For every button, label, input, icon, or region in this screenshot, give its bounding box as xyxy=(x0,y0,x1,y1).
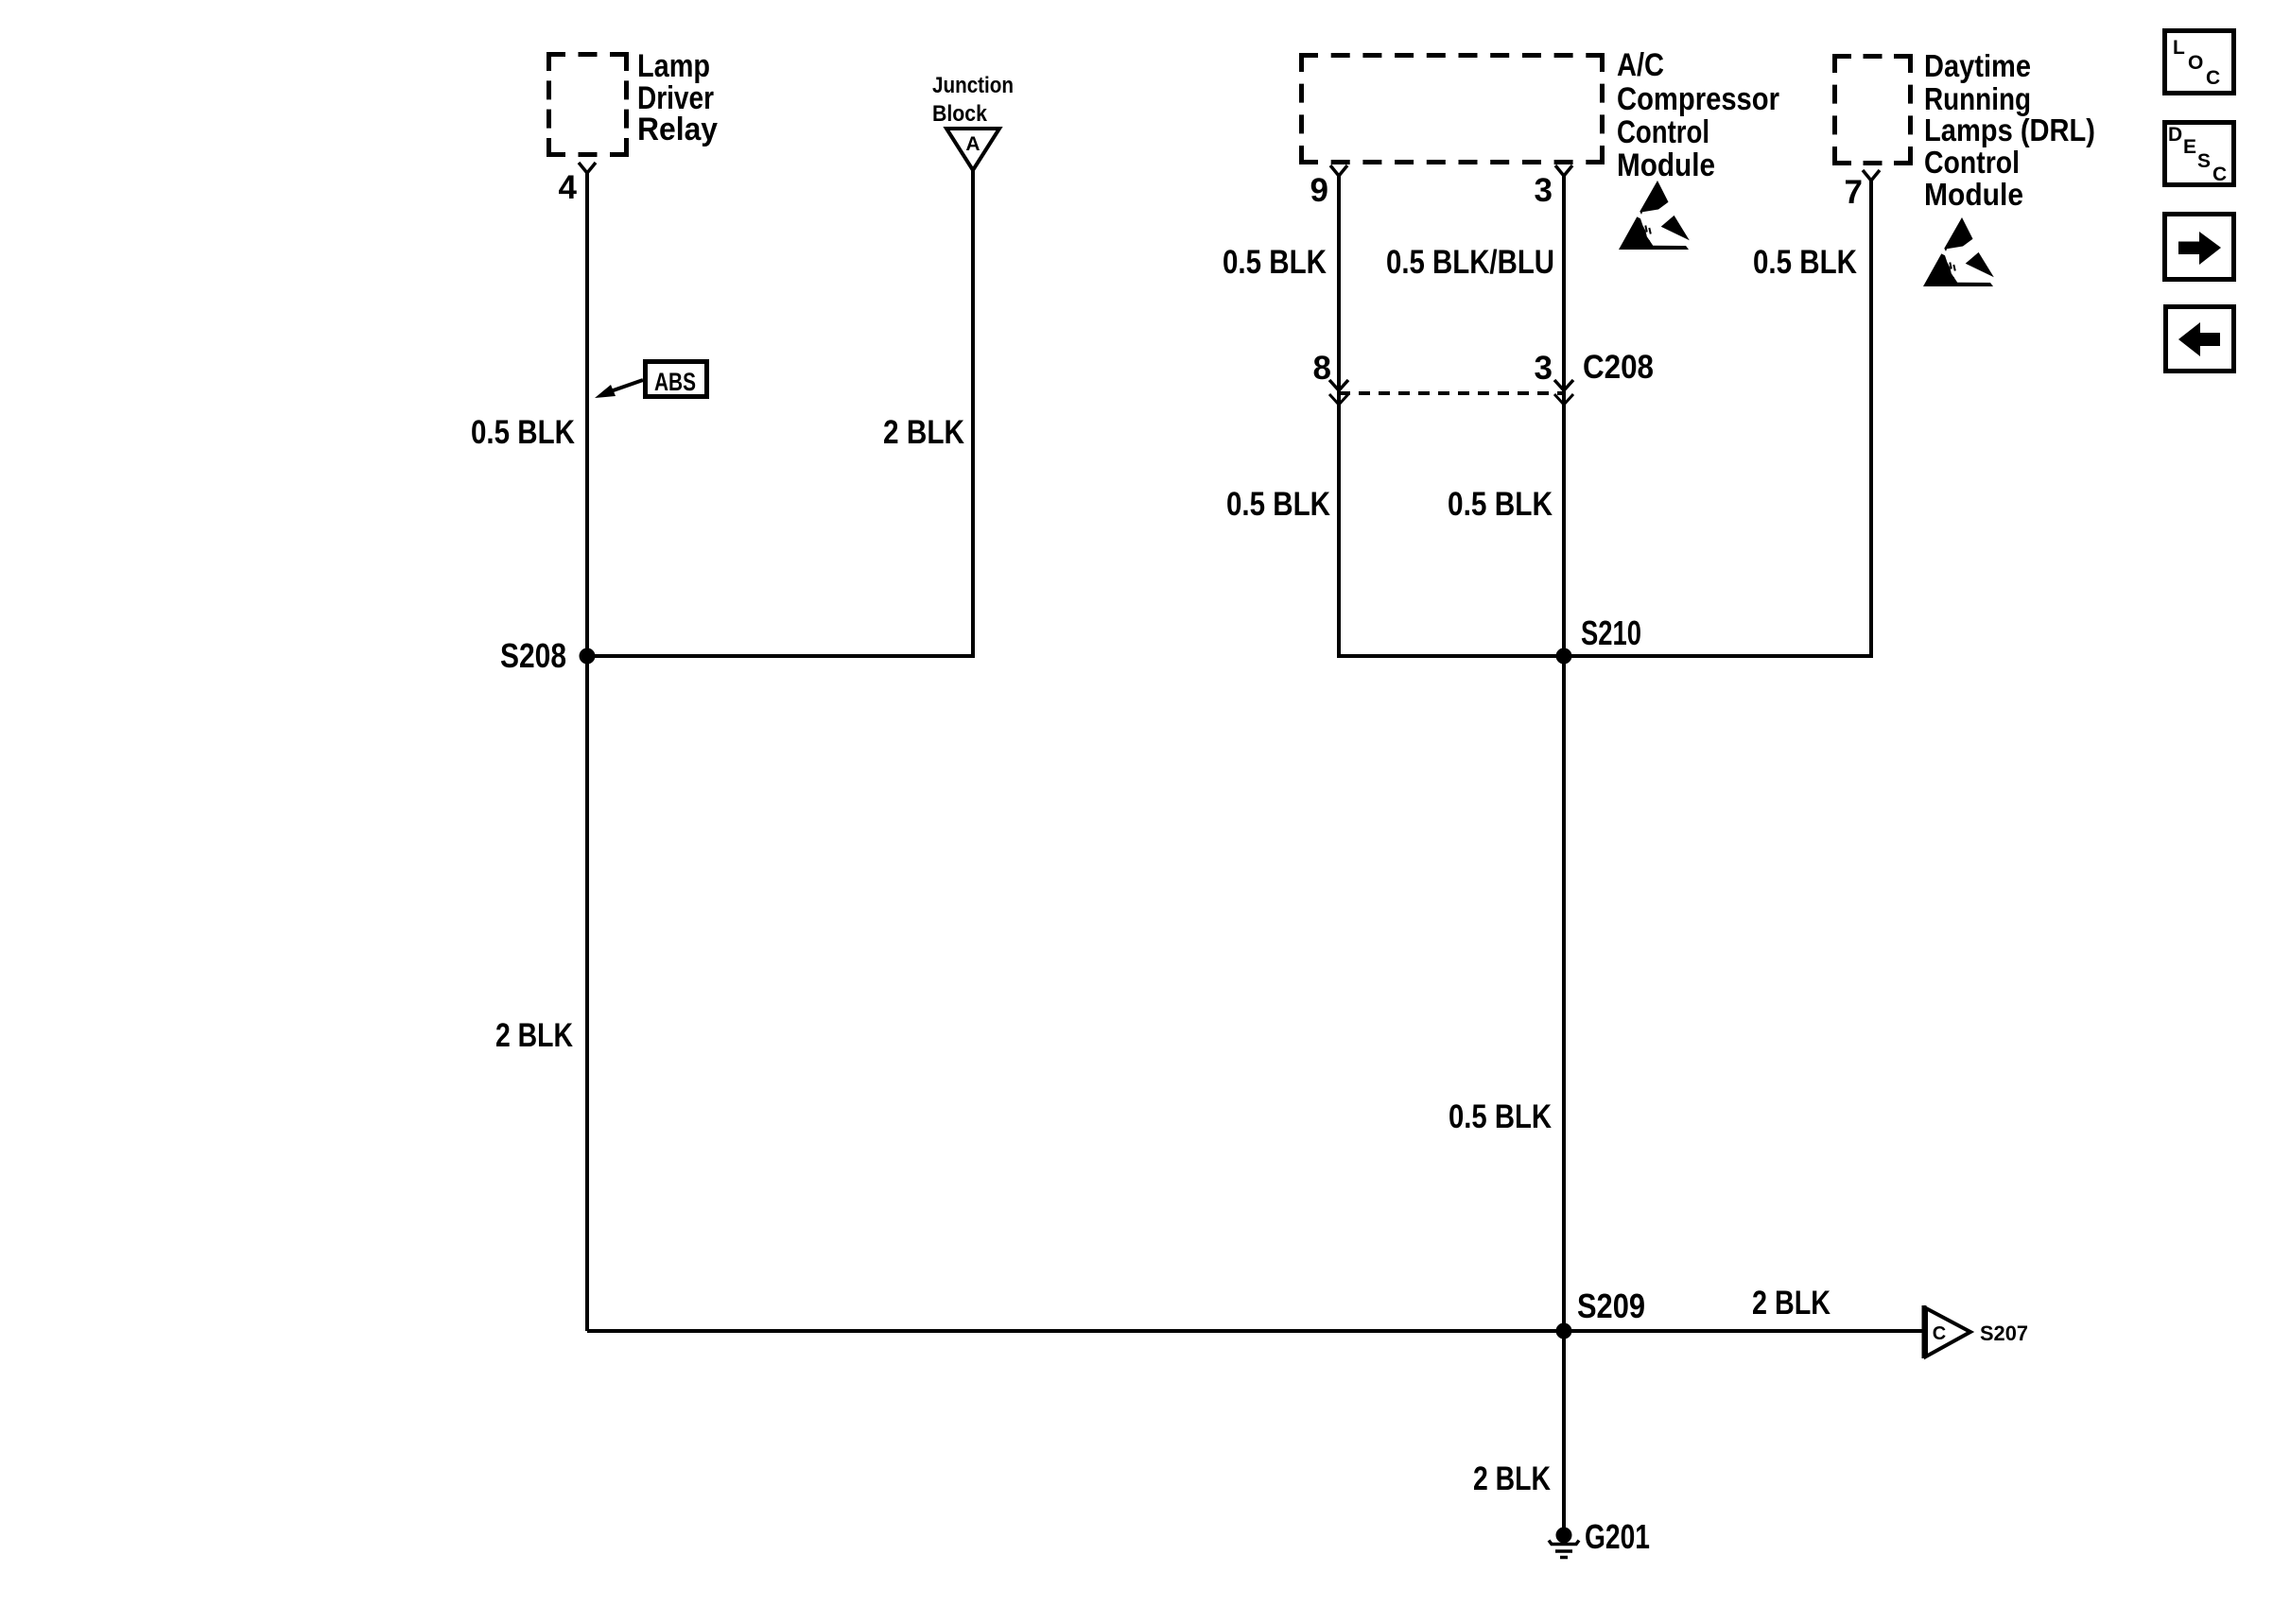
svg-text:Daytime: Daytime xyxy=(1924,48,2031,83)
svg-text:A/C: A/C xyxy=(1617,47,1664,83)
wire: junction block down to S208 horizontal xyxy=(971,170,975,656)
label: Daytime Running Lamps (DRL) Control Module xyxy=(1924,48,2095,212)
ESD symbol (DRL module) xyxy=(1923,217,1994,286)
pin 4 connector (female terminal Y) xyxy=(579,163,596,173)
svg-text:Junction: Junction xyxy=(932,73,1014,98)
wire: relay pin 4 down through S208 to S209 line (left vertical) xyxy=(585,173,589,1331)
svg-text:S208: S208 xyxy=(500,636,566,675)
svg-text:S210: S210 xyxy=(1581,613,1641,652)
wire: S210 horizontal segment xyxy=(1337,654,1873,658)
svg-text:S: S xyxy=(2197,150,2211,172)
callout ABS box xyxy=(595,362,707,399)
wire: DRL pin 7 down to S210 (right vertical) xyxy=(1869,181,1873,658)
svg-text:A: A xyxy=(965,133,980,155)
wire: S208 horizontal segment xyxy=(587,654,975,658)
svg-text:3: 3 xyxy=(1535,350,1553,387)
svg-text:0.5 BLK: 0.5 BLK xyxy=(1223,244,1327,281)
svg-text:Module: Module xyxy=(1617,147,1715,183)
ground G201 symbol xyxy=(1549,1528,1579,1558)
ESD symbol (A/C module) xyxy=(1619,181,1690,250)
junction block connector A (triangle) xyxy=(946,129,999,170)
svg-text:Module: Module xyxy=(1924,177,2023,212)
label: A/C Compressor Control Module xyxy=(1617,47,1779,183)
pin 7 connector xyxy=(1863,170,1880,181)
label: Lamp Driver Relay xyxy=(637,48,718,147)
svg-text:0.5 BLK: 0.5 BLK xyxy=(471,414,575,451)
svg-text:Lamp: Lamp xyxy=(637,48,710,84)
node S208 junction dot xyxy=(580,648,596,665)
svg-text:S207: S207 xyxy=(1980,1322,2028,1345)
svg-text:2 BLK: 2 BLK xyxy=(495,1017,573,1054)
svg-text:Compressor: Compressor xyxy=(1617,81,1779,117)
svg-text:Block: Block xyxy=(932,101,988,127)
pin 9 connector xyxy=(1330,165,1347,176)
module: A/C Compressor Control Module dashed box xyxy=(1299,53,1605,164)
svg-text:7: 7 xyxy=(1845,174,1863,211)
svg-text:0.5 BLK/BLU: 0.5 BLK/BLU xyxy=(1386,244,1554,281)
svg-text:Running: Running xyxy=(1924,81,2031,116)
svg-text:3: 3 xyxy=(1535,172,1553,209)
legend icon: forward arrow box xyxy=(2165,215,2234,280)
svg-text:2 BLK: 2 BLK xyxy=(1752,1285,1831,1322)
svg-text:Control: Control xyxy=(1924,145,2020,180)
connector C (to S207) xyxy=(1924,1305,1970,1358)
svg-text:C: C xyxy=(2212,164,2227,185)
svg-text:9: 9 xyxy=(1310,172,1328,209)
wire: A/C pin 9 down to S210 (left vertical) xyxy=(1337,176,1341,658)
relay: Lamp Driver Relay dashed box xyxy=(547,52,629,157)
legend icon: back arrow box xyxy=(2166,307,2234,371)
svg-text:E: E xyxy=(2183,136,2196,158)
node S210 junction dot xyxy=(1556,648,1572,665)
svg-text:2 BLK: 2 BLK xyxy=(883,414,964,451)
svg-text:0.5 BLK: 0.5 BLK xyxy=(1753,244,1857,281)
svg-text:0.5 BLK: 0.5 BLK xyxy=(1226,486,1330,523)
svg-text:4: 4 xyxy=(559,169,578,206)
pin 3 connector xyxy=(1555,165,1572,176)
wire: A/C pin 3 down to S210 (center vertical) xyxy=(1562,176,1566,656)
svg-text:Relay: Relay xyxy=(637,112,718,147)
svg-text:0.5 BLK: 0.5 BLK xyxy=(1448,486,1553,523)
svg-text:Lamps (DRL): Lamps (DRL) xyxy=(1924,112,2095,147)
svg-text:L: L xyxy=(2173,37,2185,59)
svg-text:O: O xyxy=(2188,52,2203,74)
svg-text:D: D xyxy=(2168,124,2182,146)
svg-text:C: C xyxy=(1933,1323,1946,1344)
svg-text:C: C xyxy=(2206,67,2220,89)
svg-text:G201: G201 xyxy=(1585,1517,1650,1556)
svg-text:S209: S209 xyxy=(1577,1287,1645,1325)
node S209 junction dot xyxy=(1556,1323,1572,1339)
svg-text:2 BLK: 2 BLK xyxy=(1473,1460,1551,1497)
svg-text:ABS: ABS xyxy=(654,368,696,396)
connector C208: in-line connector (dashed line + chevrons) xyxy=(1329,380,1573,405)
module: Daytime Running Lamps (DRL) Control Module dashed box xyxy=(1832,54,1913,165)
wire: S209 horizontal segment to connector C xyxy=(587,1329,1924,1333)
svg-text:Control: Control xyxy=(1617,114,1709,150)
wire: S210 down to G201 (center vertical) xyxy=(1562,656,1566,1535)
legend icon: DESC box xyxy=(2165,123,2234,186)
junction block label xyxy=(932,73,1014,127)
svg-text:8: 8 xyxy=(1313,350,1331,387)
legend icon: LOC box xyxy=(2165,31,2234,94)
svg-text:0.5 BLK: 0.5 BLK xyxy=(1449,1098,1552,1135)
svg-text:C208: C208 xyxy=(1583,349,1654,386)
